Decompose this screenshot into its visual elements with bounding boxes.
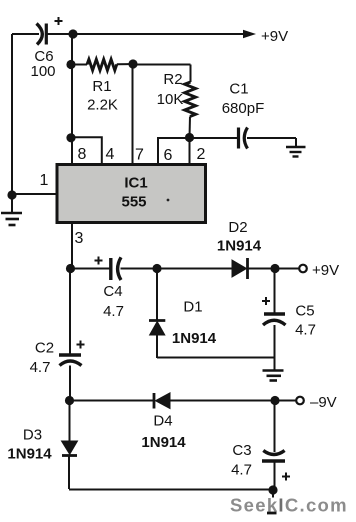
pin 6 label — [164, 147, 173, 164]
node C4 / D1 junction — [152, 264, 161, 273]
wire bottom rail — [69, 489, 273, 491]
wire D4 to -9V terminal — [170, 400, 296, 402]
svg-text:D1: D1 — [183, 299, 202, 316]
svg-text:IC1: IC1 — [124, 175, 147, 192]
svg-text:D2: D2 — [228, 219, 247, 236]
wire pin 7 — [132, 64, 134, 165]
svg-text:1N914: 1N914 — [7, 446, 52, 463]
node D2 / C5 junction — [270, 264, 279, 273]
svg-text:C4: C4 — [103, 283, 122, 300]
pin 8 label — [78, 146, 87, 163]
ground C5 — [263, 358, 284, 381]
svg-text:–9V: –9V — [310, 394, 337, 411]
svg-text:C5: C5 — [295, 303, 314, 320]
capacitor C3 4.7 — [231, 401, 290, 490]
wire D1 to C5 ground rail — [157, 357, 274, 359]
arrow to +9V supply — [243, 28, 288, 45]
wire V+ vertical to pin 8 — [71, 34, 73, 165]
svg-text:R1: R1 — [92, 78, 111, 95]
resistor R1 2.2K — [71, 59, 133, 113]
svg-text:C3: C3 — [232, 442, 251, 459]
diode D2 1N914 — [217, 219, 262, 279]
wire D3 node to D4 — [70, 400, 155, 402]
wire pin 1 — [12, 193, 57, 195]
wire D2 to +9V terminal — [248, 268, 300, 270]
capacitor C5 4.7 — [262, 269, 316, 358]
terminal +9V output — [299, 262, 339, 279]
svg-text:100: 100 — [30, 63, 55, 80]
node R1 right — [128, 59, 137, 68]
wire pin 2 — [189, 138, 191, 165]
node bottom junction — [267, 485, 278, 513]
capacitor C4 4.7 — [95, 257, 124, 321]
ground left — [1, 195, 22, 225]
svg-text:1: 1 — [40, 172, 49, 189]
diode D3 1N914 — [7, 401, 77, 490]
node pins 2 and 6 junction — [185, 133, 194, 142]
svg-text:D3: D3 — [23, 427, 42, 444]
capacitor C6 100 — [30, 17, 62, 80]
watermark SeekIC.com — [230, 495, 348, 516]
node C2 / D4 / D3 junction — [65, 396, 74, 405]
wire top rail left of C6 — [12, 33, 39, 35]
node pins 8 and 4 junction — [66, 133, 75, 142]
svg-text:2: 2 — [197, 146, 206, 163]
svg-text:4: 4 — [106, 146, 115, 163]
ground C1 — [286, 138, 306, 157]
wire top rail right of C6 — [47, 33, 244, 35]
svg-text:R2: R2 — [163, 71, 182, 88]
node R1 left — [66, 60, 75, 69]
wire pin 6 bracket — [158, 138, 190, 165]
svg-text:680pF: 680pF — [222, 100, 265, 117]
svg-text:6: 6 — [164, 147, 173, 164]
svg-text:C1: C1 — [229, 81, 248, 98]
svg-text:4.7: 4.7 — [103, 303, 124, 320]
wire pin3 node to C4 — [71, 268, 111, 270]
svg-text:2.2K: 2.2K — [87, 97, 118, 114]
wire pin 4 bracket — [71, 137, 102, 164]
svg-text:C2: C2 — [35, 340, 54, 357]
node pin 3 / C4 / C2 junction — [66, 264, 75, 273]
IC U1 555 timer body — [57, 165, 206, 223]
pin 1 label — [40, 172, 49, 189]
node pin 1 junction — [7, 190, 16, 199]
pin 7 label — [135, 147, 144, 164]
wire left vertical — [11, 34, 13, 195]
svg-text:3: 3 — [75, 230, 84, 247]
terminal -9V output — [296, 394, 337, 411]
pin 2 label — [197, 146, 206, 163]
svg-text:1N914: 1N914 — [141, 434, 186, 451]
wire C4 to D2 — [121, 268, 233, 270]
node D4 / C3 junction — [270, 396, 279, 405]
svg-text:1N914: 1N914 — [217, 238, 262, 255]
pin 4 label — [106, 146, 115, 163]
svg-text:555: 555 — [121, 194, 146, 211]
svg-text:7: 7 — [135, 147, 144, 164]
capacitor C2 4.7 — [30, 269, 85, 401]
svg-text:8: 8 — [78, 146, 87, 163]
wire pins 2/6 node to C1 — [190, 137, 238, 139]
svg-text:+9V: +9V — [312, 262, 339, 279]
diode D1 1N914 — [149, 269, 217, 359]
svg-text:4.7: 4.7 — [295, 322, 316, 339]
svg-text:1N914: 1N914 — [172, 330, 217, 347]
wire R1 to R2 top — [133, 64, 191, 66]
svg-text:4.7: 4.7 — [30, 359, 51, 376]
resistor R2 10K — [157, 65, 196, 138]
svg-text:4.7: 4.7 — [231, 462, 252, 479]
wire pin 3 — [71, 223, 73, 269]
svg-text:+9V: +9V — [261, 28, 288, 45]
node top junction — [68, 29, 77, 38]
pin 3 label — [75, 230, 84, 247]
diode D4 1N914 — [141, 393, 186, 451]
svg-text:10K: 10K — [157, 91, 184, 108]
svg-text:D4: D4 — [153, 413, 172, 430]
capacitor C1 680pF — [222, 81, 296, 149]
svg-text:SeekIC.com: SeekIC.com — [230, 495, 348, 516]
